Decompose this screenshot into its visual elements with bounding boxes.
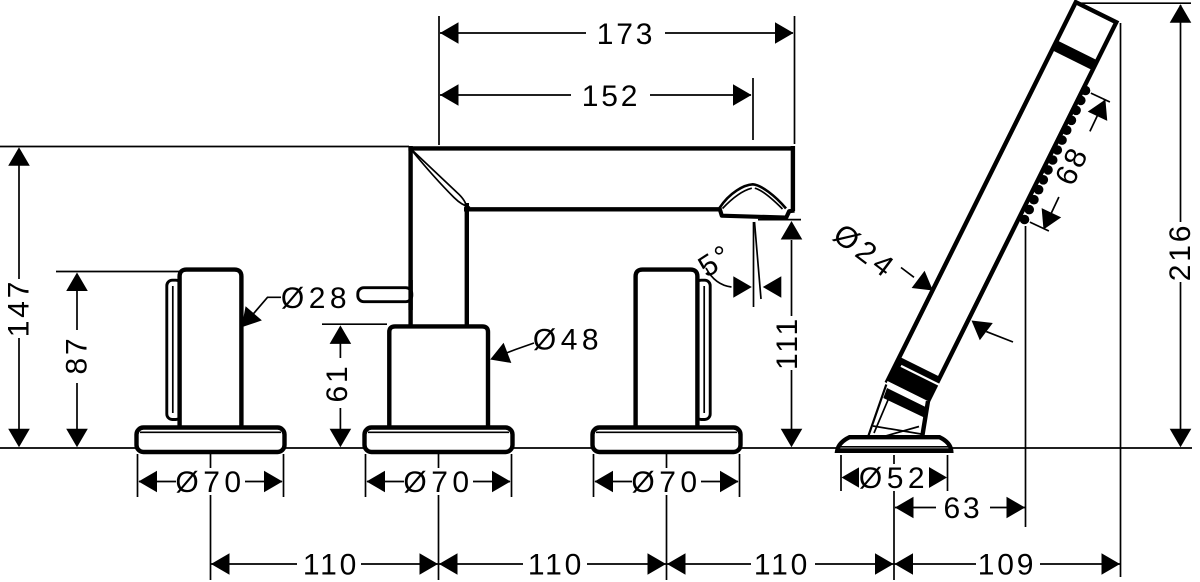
right handle body — [636, 270, 698, 430]
spout top edge — [408, 146, 794, 150]
dim 68 arrows — [1088, 95, 1115, 121]
dim Ø70 left: line and arrows — [139, 481, 282, 483]
dim Ø70 left: extension lines — [137, 454, 139, 497]
bottom chain dim line 110/110/110/109 — [211, 563, 1120, 565]
svg-text:87: 87 — [61, 336, 94, 375]
dim 68 extension ticks — [1091, 93, 1110, 102]
left handle side plate inner line — [172, 286, 174, 413]
riser left edge over stick — [408, 280, 412, 310]
right handle side plate inner line — [703, 286, 705, 413]
dim 216 vertical line — [1180, 5, 1182, 222]
svg-text:110: 110 — [754, 549, 810, 582]
svg-text:111: 111 — [771, 316, 804, 370]
dim 173 line — [440, 32, 793, 34]
5 degree slanted stream line — [755, 222, 762, 299]
spout inner corner wedge upper line — [412, 150, 467, 209]
shower holder sleeve — [868, 381, 928, 441]
shower holder centre line — [893, 455, 895, 580]
dim 147 vertical line — [18, 149, 20, 279]
label Ø48 leader — [492, 343, 534, 359]
dim 68 line — [1090, 100, 1105, 132]
right handle centre line — [666, 454, 668, 580]
label Ø28 arrowhead — [233, 306, 261, 334]
svg-text:Ø70: Ø70 — [631, 466, 701, 499]
spray nozzle dots — [1020, 86, 1091, 225]
svg-text:147: 147 — [3, 279, 36, 337]
aerator nose outer curve — [720, 184, 787, 208]
label Ø28 leader — [243, 297, 281, 326]
dim Ø70 centre: line and arrows — [367, 481, 510, 483]
centre line of spout base — [438, 454, 440, 580]
svg-text:63: 63 — [944, 492, 983, 525]
spout right end edge — [791, 146, 795, 211]
right handle side plate — [696, 280, 711, 419]
dim Ø52 text — [859, 464, 929, 491]
dim 61 arrow up — [330, 325, 352, 344]
dim 61 vertical line — [339, 327, 341, 358]
left handle centre line — [210, 454, 212, 580]
svg-text:152: 152 — [582, 80, 640, 113]
left handle body — [180, 270, 242, 430]
dim 147 arrow up — [8, 147, 30, 166]
baseline (rim / counter top) — [0, 447, 1192, 449]
dim 152 line — [440, 94, 751, 96]
shower flange bottom edge — [837, 448, 952, 452]
dim Ø70 centre: extension lines — [365, 454, 367, 497]
dim 111 arrow up — [781, 221, 803, 240]
shower holder sleeve right edge — [922, 401, 929, 441]
spout inner corner wedge lower line — [412, 150, 471, 207]
hand shower rod body — [888, 2, 1117, 403]
shower holder escutcheon flange — [837, 437, 951, 451]
spout Ø48 base body — [389, 326, 488, 430]
svg-text:110: 110 — [303, 549, 359, 582]
hand shower band highlight slash — [901, 366, 939, 385]
dim 87 vertical line — [76, 274, 78, 330]
5 degree arrow right — [763, 276, 782, 298]
shower holder sleeve left edge — [868, 385, 886, 438]
shower holder cross brace lines — [873, 426, 924, 435]
spout height reference line (top left) — [0, 146, 409, 148]
spout riser left edge — [408, 146, 412, 327]
dim 111 vertical line — [791, 240, 793, 316]
svg-text:216: 216 — [1164, 223, 1197, 281]
right handle flange inner line — [596, 431, 737, 433]
dim 173 extension line left (riser centre) — [438, 16, 440, 145]
extension line from shower top corner down to dim 109 — [1120, 23, 1122, 577]
spout underside edge — [464, 207, 720, 211]
shower holder sleeve inner line — [874, 391, 892, 433]
label Ø48 arrowhead — [486, 343, 511, 370]
dim 152 extension line right (aerator tip) — [752, 78, 754, 140]
dim 216 arrow up — [1170, 4, 1192, 23]
dim 63 line — [895, 507, 936, 509]
shower holder hose nut stripe — [883, 388, 926, 418]
5 degree arrow left — [733, 276, 752, 298]
dim Ø70 right: line and arrows — [595, 481, 738, 483]
bottom chain arrows — [211, 553, 230, 575]
hand shower lower black band — [888, 357, 941, 401]
svg-text:110: 110 — [528, 549, 584, 582]
5 degree leader curve — [706, 268, 732, 287]
svg-text:Ø70: Ø70 — [403, 466, 473, 499]
dim 111 extension line — [758, 219, 801, 221]
dim 173 extension line right — [794, 16, 796, 144]
svg-text:61: 61 — [321, 364, 354, 403]
aerator nose inner curves — [723, 188, 783, 209]
label Ø24 leader right with arrowhead on rod right edge — [965, 312, 993, 340]
dim 63 arrows — [895, 497, 914, 519]
shower flange inner line — [840, 446, 948, 448]
dim 87 arrow down — [66, 429, 88, 448]
svg-text:173: 173 — [597, 18, 655, 51]
left handle escutcheon flange — [137, 428, 285, 453]
svg-text:Ø28: Ø28 — [281, 282, 351, 315]
dim 216 top extension line — [1078, 2, 1191, 4]
dim Ø52 arrows — [842, 467, 861, 489]
dim 61 extension line — [322, 323, 387, 325]
extension line from lowest nozzle down to dim 63 — [1025, 226, 1027, 527]
right handle escutcheon flange — [593, 428, 741, 453]
left handle flange inner line — [140, 431, 281, 433]
centre escutcheon flange — [365, 428, 513, 453]
svg-text:Ø48: Ø48 — [533, 324, 603, 357]
dim 87 arrow up — [66, 273, 88, 292]
dim 216 arrow down — [1170, 429, 1192, 448]
5 degree reference line vertical — [753, 222, 755, 307]
dim Ø52: extension lines — [840, 455, 842, 491]
svg-text:109: 109 — [978, 549, 1036, 582]
aerator lip — [719, 208, 794, 218]
dim 147 arrow down — [8, 429, 30, 448]
centre flange inner line — [368, 431, 509, 433]
left handle side plate — [167, 280, 182, 419]
dim 87 extension line — [56, 271, 180, 273]
dim 111 arrow down — [781, 429, 803, 448]
svg-text:Ø52: Ø52 — [859, 462, 929, 495]
label Ø24 leader left with arrowhead on rod left edge — [901, 268, 914, 278]
hand shower cap separator band — [1052, 40, 1097, 70]
spout riser right edge — [465, 203, 469, 327]
dim 61 arrow down — [330, 429, 352, 448]
temperature control stick — [358, 288, 412, 302]
svg-text:Ø70: Ø70 — [175, 466, 245, 499]
dim Ø70 right: extension lines — [593, 454, 595, 497]
